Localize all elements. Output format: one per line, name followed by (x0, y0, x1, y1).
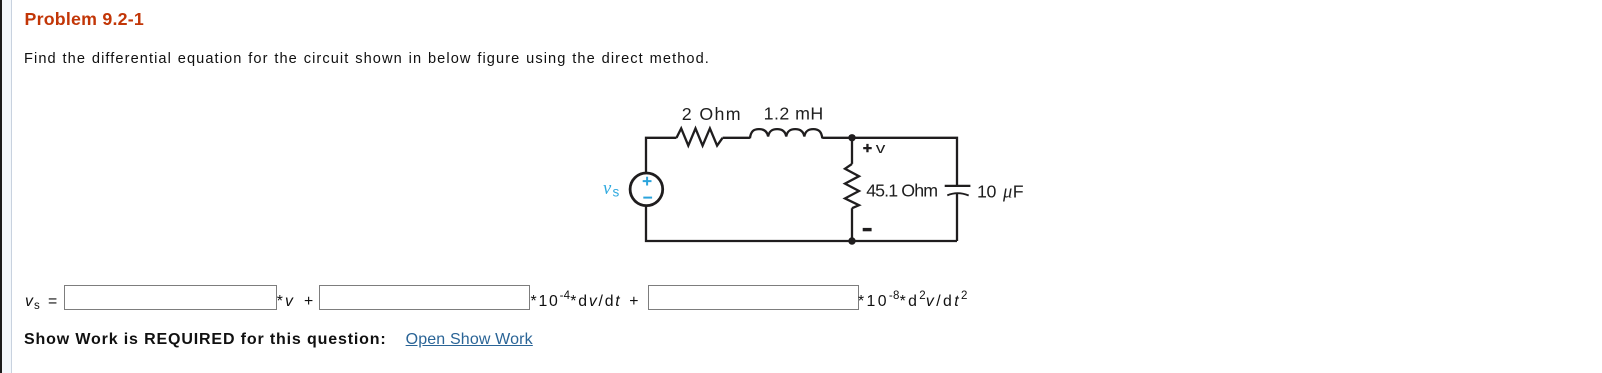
answer box 3 (648, 285, 860, 310)
voltage source - mark (643, 197, 652, 199)
svg-text:2 Ohm: 2 Ohm (682, 104, 741, 124)
heading: Problem 9.2-1 (25, 11, 144, 29)
polarity + v label (863, 140, 886, 156)
resistor R 2 Ohm zigzag (677, 128, 723, 145)
circuit figure (580, 95, 1040, 255)
node A (top junction dot) (848, 134, 855, 141)
svg-text:45.1 Ohm: 45.1 Ohm (866, 180, 938, 200)
wire: below capacitor down to bottom-right corner (956, 194, 958, 241)
svg-text:s: s (613, 185, 620, 200)
svg-text:v: v (876, 140, 886, 156)
wire: top-left segment (646, 138, 957, 241)
left frame pale blue strip (2, 0, 11, 373)
voltage source + mark (643, 177, 652, 186)
left frame dark edge (0, 0, 2, 373)
answer box 1 (64, 285, 277, 310)
wire: between resistor and inductor (723, 137, 750, 139)
left frame divider line (11, 0, 12, 373)
svg-text:10: 10 (977, 181, 997, 201)
svg-text:v: v (603, 179, 612, 199)
svg-text:1.2 mH: 1.2 mH (764, 103, 824, 123)
show work line (24, 332, 533, 348)
node B (bottom junction dot) (848, 237, 855, 244)
svg-text:μF: μF (1002, 181, 1024, 202)
wire: bottom rail (646, 206, 957, 241)
equation label vs = (25, 294, 58, 310)
coefficient text *10^-4*dv/dt + (531, 294, 641, 310)
polarity - label (863, 228, 872, 231)
prompt text (24, 52, 710, 67)
wire: inductor to top-right corner and down to capacitor (822, 138, 957, 186)
voltage source vs circle (630, 173, 663, 206)
coefficient text *v + (277, 294, 315, 310)
wire: middle branch lower stub (851, 208, 853, 241)
wire: middle branch upper stub (851, 138, 853, 164)
capacitor C 10 uF plates (945, 186, 971, 196)
inductor L 1.2 mH coil (750, 129, 822, 138)
answer box 2 (319, 285, 530, 310)
resistor 45.1 Ohm vertical zigzag (845, 164, 859, 208)
coefficient text *10^-8*d2v/dt2 (858, 294, 968, 310)
